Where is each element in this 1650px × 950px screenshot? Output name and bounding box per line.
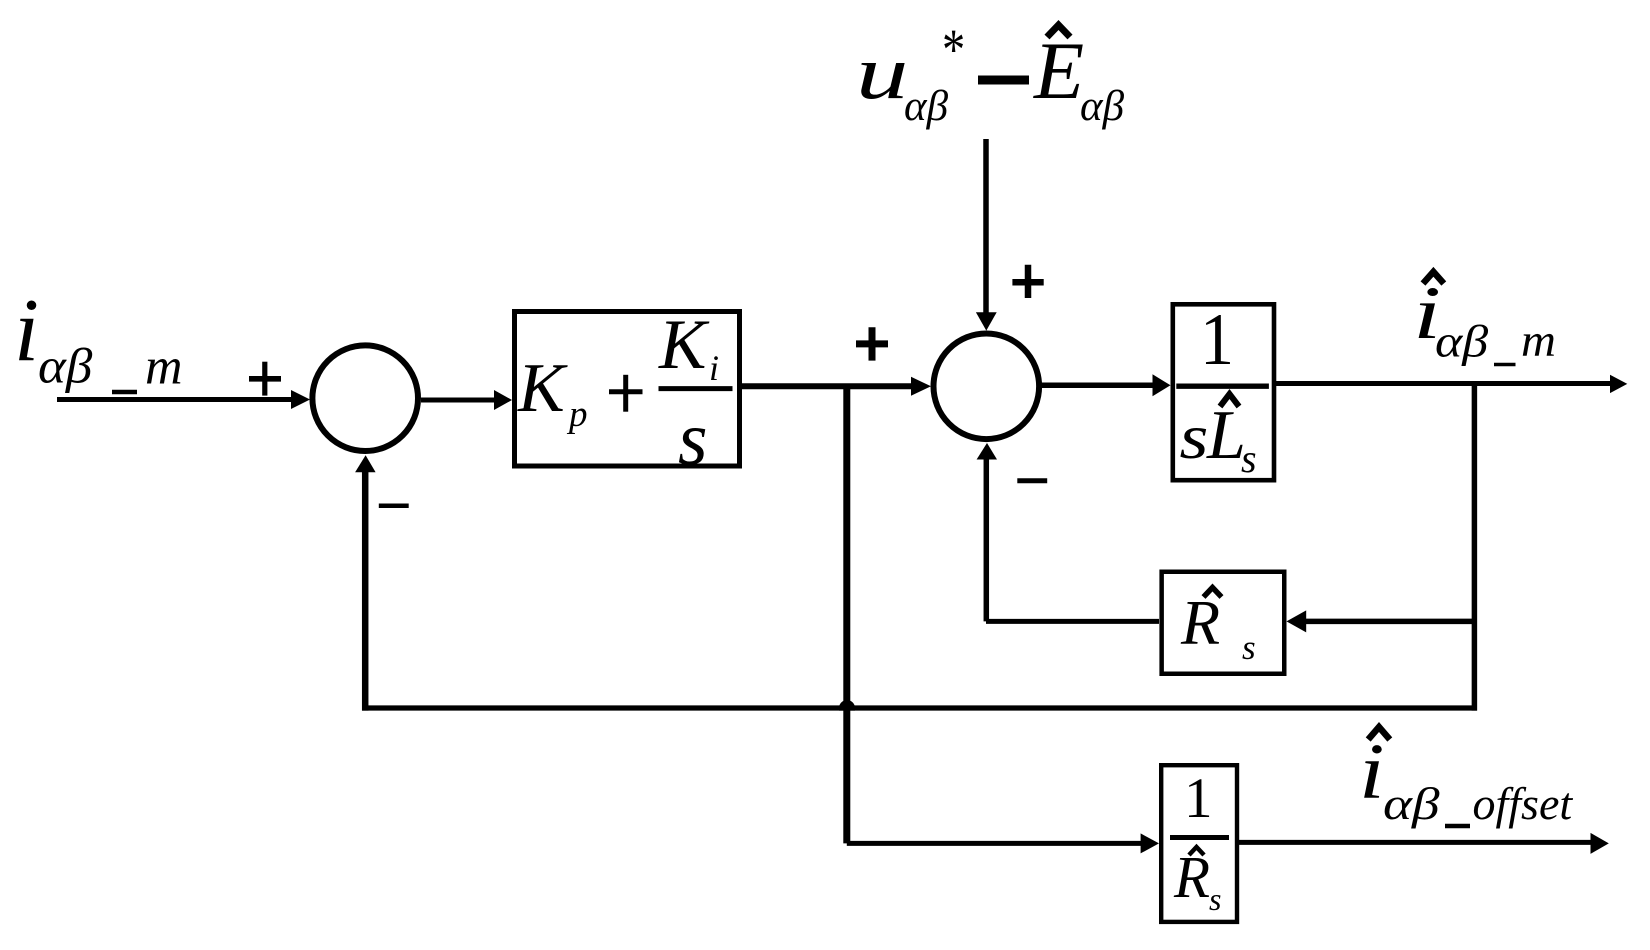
wire Rs block output to junction 2 bottom bbox=[986, 619, 1159, 624]
wire long feedback horizontal from right branch to junction 1 bbox=[362, 705, 1477, 710]
fraction bar of 1/Rs bbox=[1170, 835, 1229, 840]
svg-text:K: K bbox=[517, 350, 568, 427]
summing junction 2 (circle) bbox=[934, 334, 1040, 440]
block 1/Rs (rectangle) bbox=[1161, 765, 1237, 922]
svg-text:m: m bbox=[145, 339, 183, 396]
block PI controller Kp + Ki/s (rectangle) bbox=[515, 312, 740, 467]
plus sign above junction 2 bbox=[1012, 265, 1043, 298]
svg-text:offset: offset bbox=[1473, 778, 1574, 829]
wire junction 1 to PI block bbox=[421, 398, 494, 403]
svg-text:u: u bbox=[856, 30, 908, 115]
minus sign below junction 2 bbox=[1017, 478, 1047, 483]
node label i-hat_alphabeta_m (top right output) bbox=[1413, 272, 1556, 367]
wire junction 2 to 1/sLs block bbox=[1039, 383, 1153, 389]
plus sign at summing junction 1 input bbox=[249, 362, 281, 396]
plus sign left of junction 2 bbox=[856, 327, 888, 360]
node label i_alphabeta_m (left input) bbox=[14, 281, 183, 396]
svg-text:1: 1 bbox=[1200, 299, 1234, 380]
subscript underscore bbox=[112, 390, 137, 395]
node label u*_alphabeta minus E-hat_alphabeta (top input) bbox=[856, 18, 1125, 130]
wire vertical up into junction 2 bottom bbox=[984, 460, 990, 622]
arrowhead at bottom output bbox=[1591, 833, 1609, 854]
arrowhead into junction 2 left bbox=[911, 377, 931, 396]
wire bottom output line bbox=[1239, 840, 1591, 845]
arrowhead up into junction 2 bottom bbox=[977, 443, 997, 460]
wire branch to 1/Rs block bbox=[847, 841, 1142, 846]
svg-text:i: i bbox=[709, 348, 719, 388]
arrowhead down into junction 2 top bbox=[976, 312, 997, 330]
arrowhead up into junction 1 bottom bbox=[355, 455, 376, 472]
wire PI block output to summing junction 2 bbox=[742, 383, 913, 389]
arrowhead into 1/sLs block bbox=[1153, 374, 1171, 396]
hat accent over E bbox=[1047, 25, 1070, 37]
wire feedback branch down at right side bbox=[1472, 384, 1478, 711]
hat accent over R bbox=[1204, 588, 1222, 598]
svg-text:L: L bbox=[1206, 397, 1246, 474]
svg-text:s: s bbox=[1242, 628, 1256, 667]
minus sign below junction 1 bbox=[379, 504, 409, 509]
svg-text:αβ: αβ bbox=[1435, 315, 1489, 367]
plus sign inside PI block bbox=[609, 389, 643, 394]
svg-text:i: i bbox=[14, 281, 39, 380]
subscript underscore bbox=[1445, 824, 1470, 829]
svg-text:αβ: αβ bbox=[1080, 83, 1125, 130]
node label i-hat_alphabeta_offset (bottom right output) bbox=[1359, 727, 1573, 829]
svg-text:R: R bbox=[1180, 587, 1220, 658]
svg-text:R: R bbox=[1173, 844, 1210, 910]
fraction bar of Ki/s bbox=[659, 386, 733, 391]
subscript underscore bbox=[1494, 363, 1516, 367]
svg-text:1: 1 bbox=[1184, 767, 1213, 830]
wire branch down from PI output node bbox=[843, 386, 850, 843]
fraction bar of 1/sLs bbox=[1176, 384, 1269, 389]
svg-text:s: s bbox=[1209, 881, 1221, 917]
arrowhead into Rs block right side bbox=[1287, 610, 1307, 632]
wire left input horizontal bbox=[57, 397, 293, 402]
svg-text:p: p bbox=[566, 394, 588, 435]
svg-text:E: E bbox=[1033, 25, 1084, 116]
summing junction 1 (circle) bbox=[312, 345, 418, 451]
arrowhead into junction 1 left bbox=[291, 390, 310, 409]
wire output line to the right bbox=[1276, 381, 1610, 386]
hat accent over R bbox=[1189, 847, 1204, 855]
hat accent over L bbox=[1220, 394, 1239, 407]
junction dot at crossing of branch and feedback wire bbox=[839, 700, 855, 711]
svg-text:αβ: αβ bbox=[1383, 778, 1440, 829]
svg-text:s: s bbox=[1241, 436, 1257, 481]
wire vertical up into junction 1 bottom bbox=[362, 471, 369, 711]
svg-text:αβ: αβ bbox=[904, 83, 949, 130]
hat accent over i bbox=[1368, 727, 1390, 740]
block 1/sLs (rectangle) bbox=[1173, 304, 1274, 480]
svg-text:αβ: αβ bbox=[38, 339, 93, 394]
arrowhead into PI block bbox=[494, 390, 512, 410]
arrowhead into 1/Rs block bbox=[1141, 833, 1159, 853]
svg-text:K: K bbox=[658, 306, 710, 384]
arrowhead at output bbox=[1610, 375, 1627, 393]
wire top input vertical into summing junction 2 bbox=[983, 139, 989, 314]
minus sign between u and E bbox=[978, 76, 1029, 85]
svg-text:m: m bbox=[1521, 315, 1556, 367]
svg-text:s: s bbox=[678, 397, 708, 481]
svg-text:*: * bbox=[942, 18, 965, 82]
wire from right branch into Rs block bbox=[1305, 619, 1477, 625]
hat accent over i bbox=[1423, 272, 1444, 284]
svg-text:s: s bbox=[1180, 401, 1209, 472]
block Rs (rectangle) bbox=[1162, 572, 1285, 674]
